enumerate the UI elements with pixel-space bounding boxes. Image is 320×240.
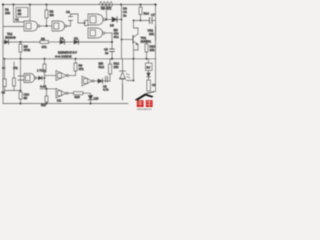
svg-text:SB: SB <box>18 9 22 13</box>
wire right border <box>155 5 157 93</box>
resistor R10 <box>145 40 155 59</box>
svg-text:C1: C1 <box>15 18 19 22</box>
diode D4 (left border) <box>3 32 16 44</box>
node F (junction x140) <box>140 4 142 6</box>
diode D2 <box>74 37 79 45</box>
svg-text:10k: 10k <box>5 11 10 15</box>
svg-text:10k: 10k <box>150 48 155 52</box>
svg-text:C6: C6 <box>2 91 6 95</box>
svg-text:2N5551: 2N5551 <box>141 40 152 44</box>
wire LED branch to x133.5 <box>127 59 134 81</box>
label caption row <box>55 51 77 59</box>
svg-text:1u: 1u <box>123 14 127 18</box>
node V (bottom bus junction x20) <box>20 103 22 105</box>
svg-text:AN: AN <box>18 12 22 16</box>
wire feedback from R8 down to U1C output node <box>106 5 108 20</box>
gate U2C (inverter) <box>82 76 98 86</box>
transistor TR1 <box>121 19 152 50</box>
node Q (bus junction x75.5) <box>75 58 77 60</box>
node I (gate C input tie) <box>84 22 86 24</box>
resistor R5 <box>40 37 60 49</box>
svg-text:1u: 1u <box>105 51 109 55</box>
wire top supply bus <box>3 4 156 6</box>
resistor R13 <box>41 96 48 107</box>
resistor R13a <box>13 62 16 91</box>
wire node x112 vertical <box>111 33 113 49</box>
wire left border <box>2 5 4 104</box>
potentiometer VR1 <box>148 26 156 40</box>
wire D4 to R5 <box>9 41 41 43</box>
diode D7 <box>98 79 110 83</box>
svg-text:47u: 47u <box>114 35 119 39</box>
node J (output junction) <box>106 19 108 21</box>
svg-text:10k: 10k <box>114 65 119 69</box>
wire R14 to capacitor C7 <box>134 20 150 22</box>
resistor R4 <box>19 42 31 59</box>
svg-text:LED: LED <box>94 97 99 101</box>
node B (junction x13) <box>13 4 15 6</box>
node D (junction x46.5) <box>46 4 48 6</box>
svg-text:C2: C2 <box>66 10 70 14</box>
node O (bus junction x20) <box>20 58 22 60</box>
wire U2A inputs <box>18 76 24 80</box>
node K (junction R14 bottom) <box>140 20 142 22</box>
svg-text:10k: 10k <box>149 32 154 36</box>
svg-text:D5: D5 <box>110 24 114 28</box>
node U (junction x20 y90.5) <box>20 90 22 92</box>
capacitor C6 <box>2 58 7 95</box>
resistor R9 <box>74 59 84 76</box>
node G (junction top-right corner) <box>154 3 156 5</box>
svg-text:R5: R5 <box>41 37 45 41</box>
svg-text:4-AB: 4-AB <box>40 85 46 89</box>
wire second bus <box>3 58 156 60</box>
node T (bus junction x146.5) <box>146 58 148 60</box>
svg-text:C8: C8 <box>152 83 156 87</box>
wire node C down to gate U1A <box>29 5 31 22</box>
diode LED2 <box>88 96 98 104</box>
resistor R1 <box>5 8 10 15</box>
capacitor C10 <box>19 92 29 104</box>
svg-text:C7: C7 <box>151 13 155 17</box>
node W (x44.5 y78) <box>44 77 46 79</box>
node N (junction x133.5 on cap wire) <box>133 20 135 22</box>
wire U1A output to U1B <box>40 25 52 27</box>
capacitor C8 <box>103 77 109 92</box>
wire x122.5 vertical <box>122 59 124 71</box>
svg-text:4=: 4= <box>2 66 6 70</box>
node X (junction x133.5 y80.5) <box>133 80 135 82</box>
wire U2D output to R15 <box>68 92 74 94</box>
LED LED1 <box>120 71 131 99</box>
resistor R11 <box>99 59 112 81</box>
node AA (bottom bus junction x90.5) <box>90 103 92 105</box>
gate U2D (inverter) <box>56 89 68 103</box>
svg-text:470k: 470k <box>24 48 31 52</box>
capacitor C5 <box>104 48 114 59</box>
node P (bus junction x44.5) <box>44 58 46 60</box>
resistor R7 label <box>2 66 18 70</box>
node H (junction R3 / wire) <box>46 25 48 27</box>
logo red character 2 <box>146 100 153 107</box>
svg-text:R15: R15 <box>75 95 81 99</box>
svg-text:4=A CHECK: 4=A CHECK <box>55 55 72 59</box>
node A (junction top-left corner) <box>2 3 4 5</box>
gate U2A (NAND) <box>24 74 45 83</box>
resistor R8 (zigzag on top bus) <box>99 2 113 8</box>
resistor R12 labels <box>114 62 120 70</box>
capacitor C4 (top right labels) <box>123 7 127 18</box>
svg-text:2M: 2M <box>50 13 55 17</box>
node M (junction x112 mid wire) <box>111 41 113 43</box>
svg-text:4.7u: 4.7u <box>103 88 109 92</box>
resistor R15 <box>74 92 91 99</box>
logo red character 1 <box>137 100 144 107</box>
wire left border to gate U1A lower input <box>3 26 24 28</box>
node E (junction x121) <box>120 4 122 6</box>
capacitor C7 <box>150 13 156 24</box>
svg-text:R14: R14 <box>144 12 150 16</box>
capacitor C8b (tall box right) <box>147 78 156 91</box>
wire bottom bus <box>3 103 128 105</box>
wire TR1 collector up <box>134 21 139 29</box>
gate U1B (NAND) <box>52 21 67 31</box>
svg-text:2N4148: 2N4148 <box>5 36 16 40</box>
wire x20 vertical bus to cap C10 <box>20 59 22 92</box>
node R (bus junction x112) <box>111 58 113 60</box>
wire U1C output to diode D5 <box>105 19 112 21</box>
gate U2B (inverter) <box>45 71 76 81</box>
wire D5 to node E via x121 <box>117 5 122 59</box>
diode D1 <box>60 37 65 45</box>
resistor R3 <box>45 5 54 27</box>
svg-text:47k: 47k <box>79 67 84 71</box>
svg-text:IC2: IC2 <box>57 99 62 103</box>
logo roof (black) <box>135 92 155 101</box>
wire C2 to gate U1C inputs <box>71 14 89 26</box>
svg-text:www.dgjd.cn: www.dgjd.cn <box>137 107 152 110</box>
battery GB 9V <box>146 59 153 78</box>
resistor R9a <box>43 59 46 85</box>
diode D8 <box>147 73 150 77</box>
wire D1 to D2 <box>65 41 75 43</box>
node L (junction x20 on mid wire) <box>20 41 22 43</box>
gate U1C (NAND) <box>88 14 105 25</box>
switch SB1 (labelled box) <box>16 8 28 18</box>
svg-text:3B: 3B <box>24 96 28 100</box>
svg-text:47k: 47k <box>42 45 47 49</box>
wire x122.5 lower vertical <box>122 84 124 100</box>
wire gate U2D input <box>40 89 56 96</box>
wire from node B down to gate U1A input <box>14 5 25 23</box>
svg-text:D2: D2 <box>74 37 78 41</box>
diode D5 <box>110 17 117 28</box>
node Y (junction x46.5 y88.8) <box>46 88 48 90</box>
svg-text:9V: 9V <box>147 66 151 70</box>
gate U1D (NAND) <box>88 28 112 38</box>
node C (junction x30) <box>29 4 31 6</box>
resistor R14 <box>139 5 149 21</box>
resistor R6 labels <box>114 28 119 39</box>
svg-text:R12: R12 <box>99 65 105 69</box>
wire lower left joins <box>5 90 21 92</box>
wire TR1 emitter to bus <box>134 45 139 59</box>
svg-text:D1: D1 <box>60 37 64 41</box>
gate U1A (NAND) <box>24 21 40 31</box>
capacitor C2 <box>66 10 73 26</box>
wire D2 to C4 node <box>79 41 113 43</box>
diode D3 <box>39 76 43 80</box>
node Z (bottom bus junction x46.5) <box>46 103 48 105</box>
node S (bus junction x133.5) <box>133 58 135 60</box>
